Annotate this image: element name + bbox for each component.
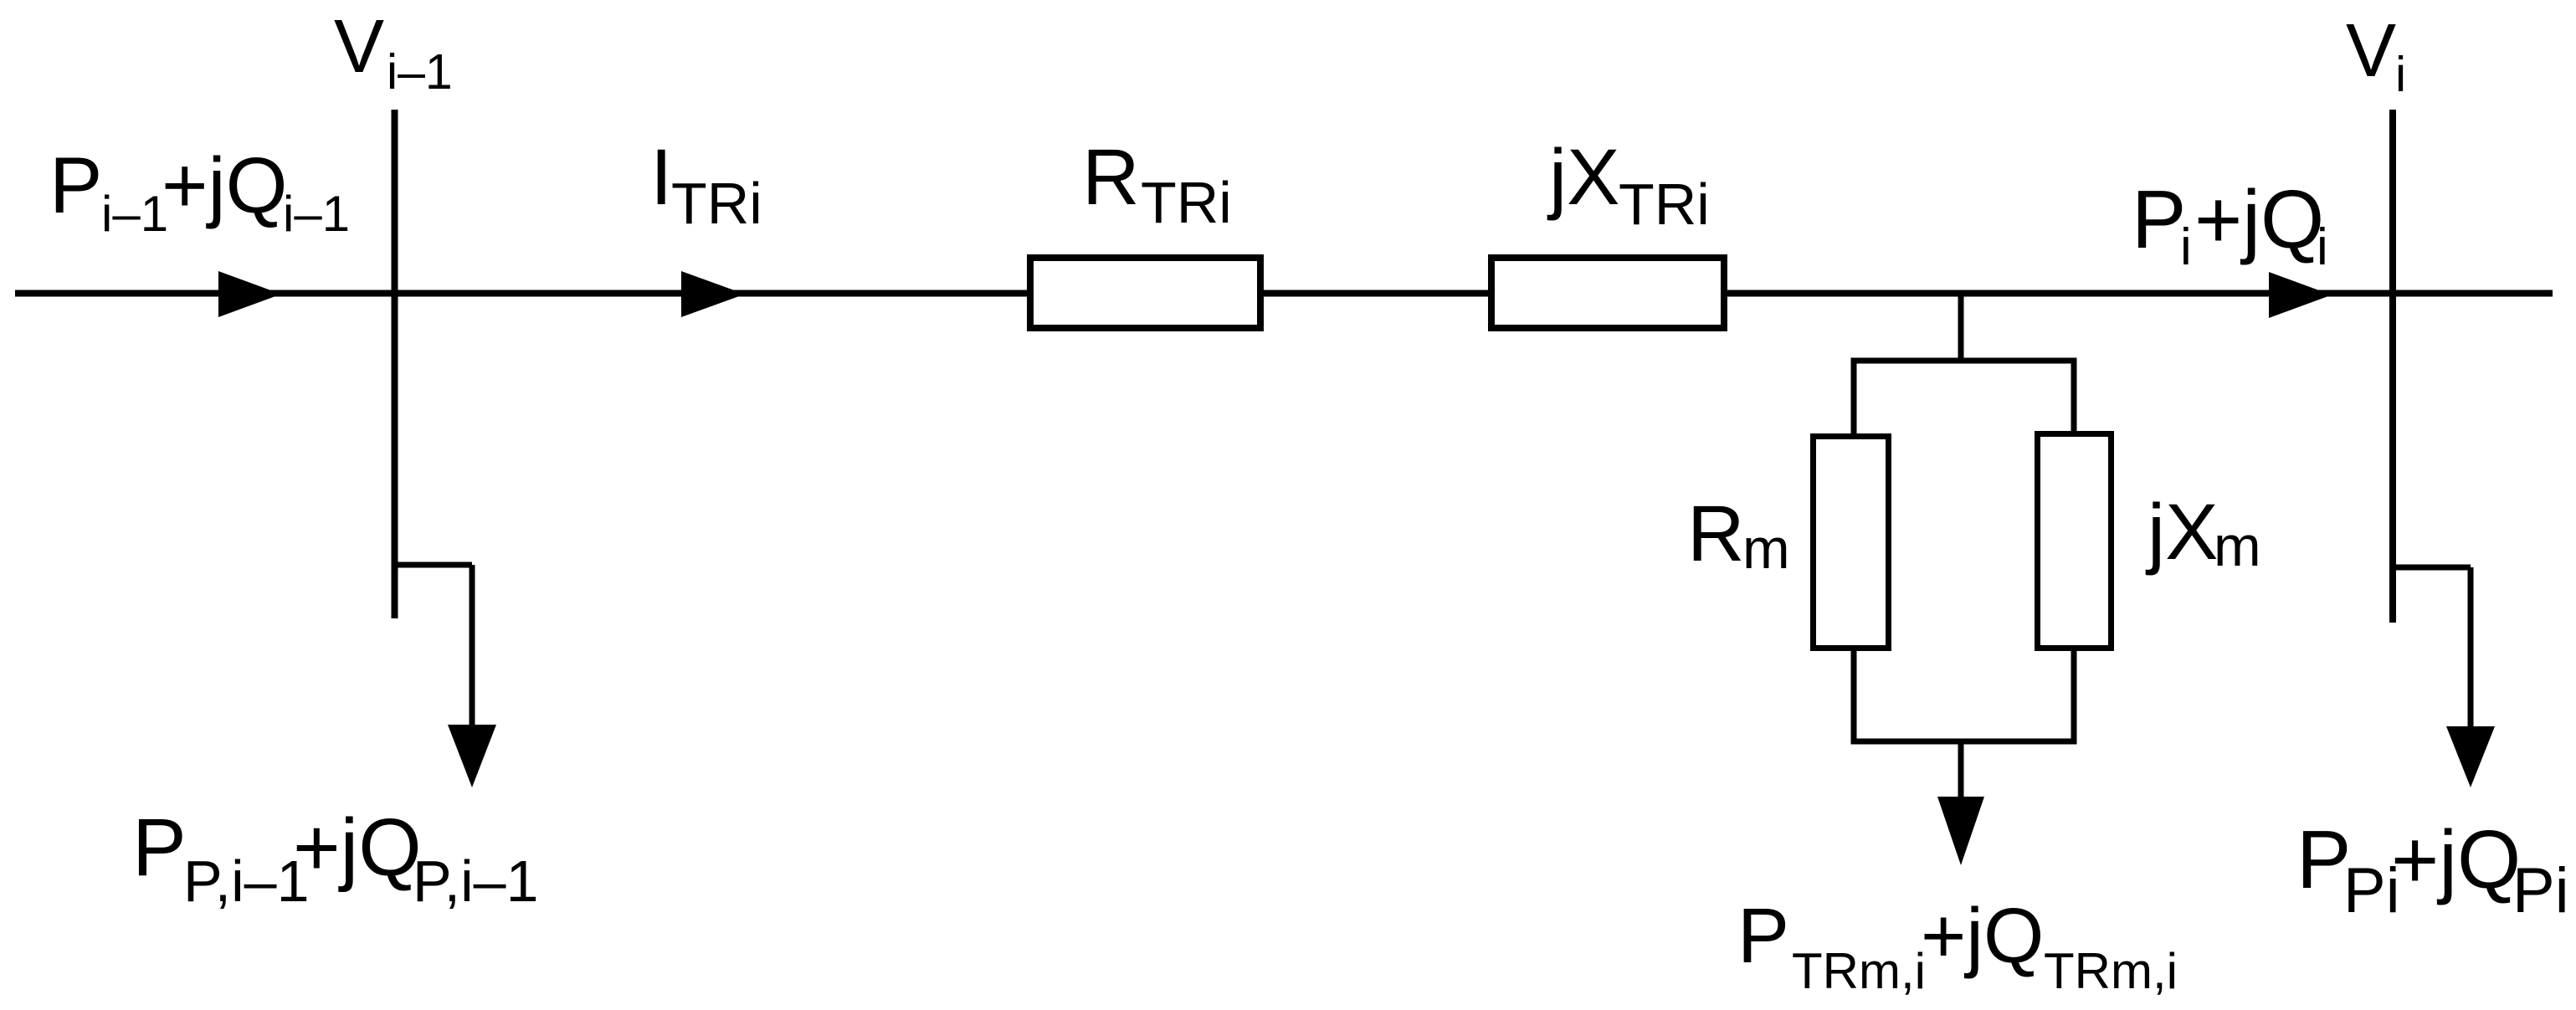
svg-text:P,i–1: P,i–1 [413, 849, 539, 914]
svg-text:P: P [1737, 892, 1789, 979]
svg-text:i: i [2180, 218, 2192, 276]
svg-text:Pi: Pi [2512, 855, 2569, 926]
svg-text:V: V [334, 5, 384, 89]
svg-text:m: m [2214, 515, 2261, 578]
svg-text:i: i [2395, 47, 2406, 102]
svg-text:R: R [1082, 133, 1140, 222]
svg-text:I: I [650, 133, 672, 222]
svg-text:V: V [2346, 9, 2396, 93]
svg-text:P: P [2132, 173, 2186, 265]
svg-text:+jQ: +jQ [2391, 813, 2521, 905]
svg-text:TRi: TRi [1141, 170, 1232, 235]
svg-text:i–1: i–1 [387, 44, 453, 100]
svg-text:+jQ: +jQ [1921, 892, 2044, 979]
svg-text:P: P [49, 141, 102, 230]
svg-text:i–1: i–1 [101, 186, 168, 242]
svg-text:+jQ: +jQ [2194, 173, 2324, 265]
svg-text:i–1: i–1 [283, 186, 350, 242]
svg-text:R: R [1687, 490, 1745, 578]
svg-text:TRm,i: TRm,i [1792, 943, 1926, 999]
svg-text:jX: jX [2145, 488, 2218, 577]
svg-text:jX: jX [1547, 133, 1619, 222]
svg-text:TRm,i: TRm,i [2044, 943, 2178, 999]
svg-text:P: P [132, 802, 187, 893]
svg-text:TRi: TRi [671, 171, 762, 236]
svg-text:+jQ: +jQ [162, 141, 287, 230]
svg-text:TRi: TRi [1619, 172, 1710, 237]
svg-text:P,i–1: P,i–1 [183, 849, 310, 914]
svg-text:i: i [2317, 218, 2328, 276]
svg-text:m: m [1742, 517, 1790, 581]
svg-text:+jQ: +jQ [293, 802, 422, 893]
